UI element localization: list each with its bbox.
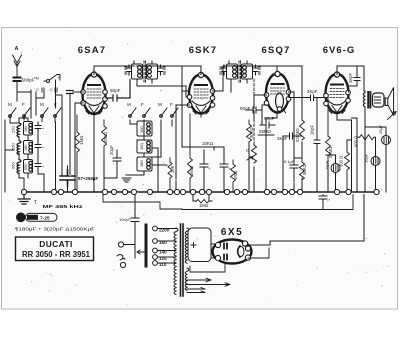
voltage selector bar — [145, 225, 148, 266]
wire avc dashed — [253, 79, 255, 145]
svg-text:100: 100 — [139, 126, 144, 133]
field coil arrow — [388, 112, 397, 120]
svg-text:10KΩ: 10KΩ — [202, 141, 214, 146]
svg-text:M: M — [158, 102, 162, 107]
wire switch to coils — [10, 118, 42, 123]
svg-text:05MΩ: 05MΩ — [259, 129, 272, 134]
svg-text:M: M — [127, 102, 131, 107]
wire filter cap — [67, 166, 69, 192]
svg-text:C: C — [36, 87, 39, 92]
svg-text:6SA7: 6SA7 — [78, 45, 107, 56]
tube 6SQ7 — [264, 71, 291, 113]
mains plug — [118, 242, 123, 247]
wire 6V6 cathode net — [326, 86, 386, 192]
svg-text:1KpF: 1KpF — [348, 73, 353, 83]
oscillator coil T1a — [137, 121, 152, 136]
bus junctions — [21, 189, 379, 194]
resistor 025M ohm — [300, 120, 305, 140]
wire 6SA7 cathode — [94, 117, 117, 192]
resistor 10K ohm osc — [168, 158, 172, 192]
svg-text:10K: 10K — [170, 165, 175, 173]
capacitor bus small — [319, 195, 327, 209]
antenna coil L1 — [11, 123, 22, 137]
svg-text:3KpF: 3KpF — [277, 136, 288, 141]
wire 6SK7 left — [176, 66, 190, 192]
svg-text:RR 3050 - RR 3951: RR 3050 - RR 3951 — [22, 250, 91, 259]
tube 6X5 — [213, 240, 252, 264]
resistor 05M ohm grid — [326, 98, 331, 164]
svg-text:20KΩ: 20KΩ — [103, 131, 108, 143]
wire coupling net — [289, 92, 329, 192]
svg-text:F: F — [141, 102, 144, 107]
svg-text:3KpF: 3KpF — [307, 89, 318, 94]
svg-text:180: 180 — [139, 160, 144, 167]
svg-text:F: F — [170, 102, 173, 107]
capacitor 16uF — [371, 157, 380, 166]
svg-text:05MΩ: 05MΩ — [328, 147, 333, 158]
svg-text:20μF: 20μF — [109, 145, 114, 155]
wire 6X5 plates — [211, 244, 216, 258]
wire 6SQ7 plate chain — [277, 66, 302, 158]
wire 6SQ7 area — [249, 95, 277, 192]
wire oscillator — [126, 120, 172, 192]
svg-text:0,1μF: 0,1μF — [284, 159, 295, 164]
selector taps — [153, 226, 158, 265]
svg-text:180: 180 — [24, 126, 28, 132]
resistor 160 ohm — [188, 114, 193, 192]
antenna coil L2 boxed — [24, 122, 33, 136]
wire lower-left net — [103, 195, 182, 209]
wire 6X5 heater return — [190, 263, 225, 272]
svg-text:T: T — [34, 200, 37, 206]
svg-text:6SK7: 6SK7 — [189, 45, 218, 56]
wire 6V6 plate rail — [337, 66, 364, 91]
svg-text:050: 050 — [24, 164, 28, 170]
svg-text:A: A — [15, 46, 19, 52]
filter capacitor 57+25B — [60, 170, 75, 186]
resistor 1M ohm bus — [196, 200, 209, 204]
svg-text:180: 180 — [24, 145, 28, 151]
capacitor cathode 6SK7 — [200, 150, 208, 192]
svg-text:6X5: 6X5 — [221, 227, 243, 238]
svg-text:10KpF: 10KpF — [119, 217, 131, 222]
capacitor grid 6SA7 — [67, 91, 74, 94]
svg-text:160Ω: 160Ω — [189, 166, 194, 176]
scan speckle — [8, 30, 389, 305]
svg-text:M: M — [40, 102, 44, 107]
svg-text:10μF: 10μF — [325, 160, 330, 170]
svg-text:80pF: 80pF — [110, 88, 121, 93]
oscillator coil T1c — [137, 157, 152, 171]
svg-text:1MΩ: 1MΩ — [199, 203, 208, 208]
capacitor 25uF — [382, 136, 391, 145]
volume potentiometer — [247, 145, 257, 163]
tube 6V6 — [324, 72, 351, 117]
svg-text:500pF: 500pF — [22, 78, 35, 83]
heater wires with arrow — [187, 278, 230, 286]
capacitor screen bypass — [220, 147, 228, 192]
wire 6SK7 plate to IFT3 — [201, 66, 277, 91]
tube 6SK7 — [187, 72, 215, 117]
ground oscillator — [122, 175, 131, 182]
wire antenna coils frame — [19, 118, 28, 192]
capacitor 01uF — [290, 158, 298, 192]
trimmer capacitor row1 — [35, 122, 41, 132]
svg-text:220: 220 — [11, 126, 16, 133]
svg-text:*M: *M — [34, 76, 39, 81]
output transformer T4 — [363, 91, 370, 192]
svg-text:¶180μF + 3(20μF Δ1500KμF: ¶180μF + 3(20μF Δ1500KμF — [15, 227, 95, 232]
IF transformer T2 — [125, 61, 186, 97]
svg-text:50KΩ: 50KΩ — [302, 164, 307, 175]
svg-text:30KΩ: 30KΩ — [249, 127, 254, 138]
svg-text:57+258μF: 57+258μF — [78, 176, 98, 181]
svg-text:550: 550 — [11, 143, 16, 150]
selector tap wires — [157, 229, 176, 264]
logo ducati oval — [16, 213, 26, 223]
svg-text:MF 465 kHz: MF 465 kHz — [43, 204, 84, 209]
svg-text:DUCATI: DUCATI — [39, 239, 72, 249]
resistor 1M ohm oscillator — [75, 115, 80, 192]
svg-text:M: M — [8, 102, 12, 107]
svg-text:025MΩ: 025MΩ — [295, 128, 300, 142]
mains squiggle — [117, 255, 125, 261]
svg-text:1MΩ: 1MΩ — [233, 171, 238, 180]
svg-text:6V6-G: 6V6-G — [323, 45, 355, 56]
wire 6SA7 grid — [56, 80, 84, 192]
resistor 1M ohm avc — [231, 160, 236, 192]
ground symbol main — [18, 195, 30, 204]
svg-text:16μF: 16μF — [364, 153, 369, 163]
svg-text:6SQ7: 6SQ7 — [261, 45, 290, 56]
wire 6X5 cathode out — [248, 195, 364, 245]
wire left column — [5, 120, 44, 192]
antenna coil L6 boxed — [24, 160, 33, 174]
antenna coil L3 — [11, 141, 22, 155]
resistor 50K ohm — [300, 158, 305, 180]
svg-text:1KpF: 1KpF — [310, 125, 315, 135]
switch contact antenna F — [44, 75, 60, 82]
power transformer T5 — [174, 224, 211, 296]
svg-text:H: H — [19, 216, 23, 222]
resistor 20K ohm — [102, 120, 107, 160]
trimmer capacitor row3 — [35, 160, 41, 170]
wire 6SA7 top cap rail — [94, 66, 201, 75]
resistor 30K ohm — [247, 120, 252, 142]
capacitor 500pF antenna — [14, 78, 21, 82]
wire B+ runs — [182, 195, 353, 210]
DUCATI label box — [16, 237, 94, 261]
oscillator coil T1b — [137, 140, 152, 153]
tube 6SA7 — [81, 72, 108, 117]
svg-text:7-25: 7-25 — [40, 216, 50, 222]
trimmer capacitor row2 — [35, 141, 41, 151]
svg-text:F: F — [22, 102, 25, 107]
antenna coil L5 — [11, 160, 22, 174]
svg-text:1MΩ: 1MΩ — [79, 135, 84, 145]
capacitor 10uF — [331, 164, 340, 173]
IF transformer T3 — [220, 61, 260, 92]
antenna coil L4 boxed — [24, 141, 33, 155]
svg-text:C: C — [50, 87, 53, 92]
svg-text:050: 050 — [11, 162, 16, 169]
wire antenna switch block — [17, 80, 56, 118]
svg-text:25μF: 25μF — [378, 124, 383, 134]
svg-text:GB: GB — [29, 215, 36, 220]
main ground bus — [24, 191, 379, 193]
speaker — [373, 88, 394, 116]
